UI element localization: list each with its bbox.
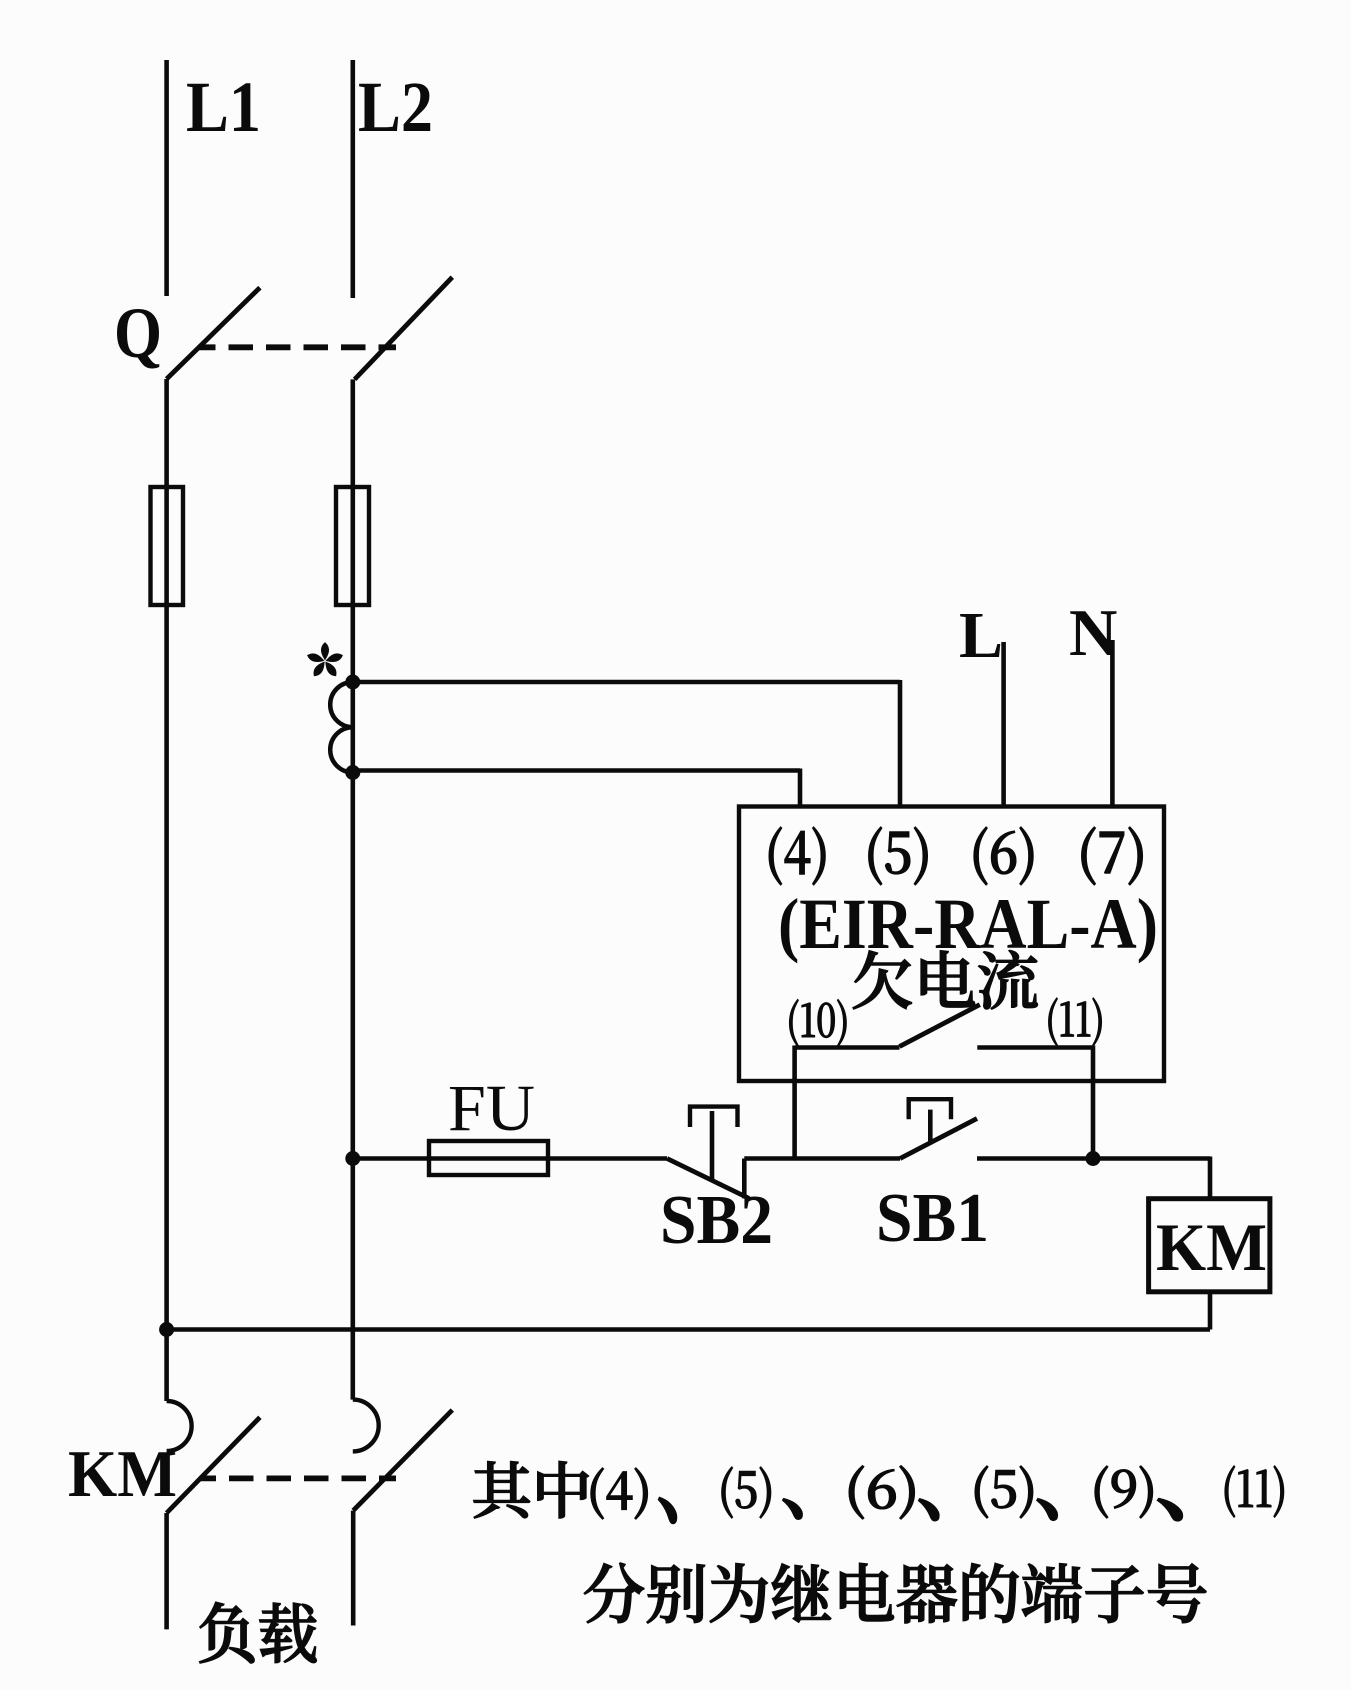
note (5) second [975, 1466, 1033, 1518]
relay pin 5 text [869, 827, 928, 885]
contactor coil KM box [1149, 1199, 1270, 1292]
note (5) [722, 1467, 771, 1518]
wire L1 incoming line [164, 60, 169, 296]
svg-text:L: L [959, 599, 1003, 672]
wire L2 incoming line [350, 60, 355, 298]
wire L1 below switch [164, 379, 169, 1401]
svg-text:FU: FU [448, 1072, 535, 1145]
svg-text:L2: L2 [358, 67, 433, 147]
note (9) [1095, 1466, 1153, 1518]
relay pin 11 text [1049, 998, 1102, 1046]
pushbutton SB1 cap [909, 1099, 951, 1119]
wire terminal 10 down [792, 1046, 797, 1161]
wire CT top to terminal 5 [353, 680, 900, 685]
note line2 分别为继电器的端子号 [584, 1563, 1206, 1623]
wire KM coil to bottom rail [1208, 1292, 1213, 1330]
wire CT bottom to terminal 4 [353, 768, 800, 773]
wire L1 to load [164, 1513, 169, 1629]
pushbutton SB2 cap [690, 1107, 738, 1127]
wire L2 to load [351, 1511, 356, 1626]
wire control rail left [353, 1156, 667, 1161]
relay name 欠电流 [853, 950, 1037, 1009]
contactor KM blade pole 1 [167, 1417, 260, 1513]
switch Q blade pole 1 [167, 288, 260, 379]
wire SB1 to KM coil [977, 1156, 1210, 1161]
note line1 其中 [474, 1461, 589, 1518]
junction CT top [345, 675, 360, 690]
fuse FU2 (L2) [336, 487, 369, 605]
contactor KM contact arc pole 2 [353, 1400, 379, 1452]
relay pin 4 text [769, 827, 825, 885]
wire N to terminal 7 [1110, 640, 1115, 808]
wire down to KM coil [1208, 1157, 1213, 1199]
relay contact fixed side (10) [795, 1045, 900, 1050]
note (11) [1225, 1466, 1284, 1517]
wire L2 below switch [350, 379, 355, 1399]
switch Q blade pole 2 [355, 277, 453, 379]
junction bottom rail on L1 [159, 1322, 174, 1337]
svg-text:L1: L1 [186, 67, 261, 147]
CT winding arcs [330, 682, 353, 772]
contactor KM contact arc pole 1 [167, 1401, 192, 1451]
note comma 4 [1037, 1499, 1057, 1520]
relay pin 10 text [789, 999, 846, 1046]
pushbutton SB1 blade [900, 1119, 977, 1159]
relay U1 box (EIR-RAL-A) [739, 807, 1164, 1082]
pushbutton SB2 plunger [710, 1111, 715, 1181]
svg-text:Q: Q [114, 293, 162, 373]
svg-text:(EIR-RAL-A): (EIR-RAL-A) [778, 884, 1158, 964]
fuse FU1 (L1) [151, 487, 184, 605]
note comma 2 [783, 1499, 802, 1519]
relay contact blade [900, 1005, 980, 1047]
junction CT bottom [345, 765, 360, 780]
pushbutton SB1 plunger [928, 1110, 933, 1141]
pushbutton SB2 blade [667, 1159, 749, 1199]
relay pin 7 text [1082, 827, 1143, 885]
switch Q linkage dashed line [199, 344, 396, 350]
relay contact fixed side (11) [977, 1045, 1093, 1050]
note (4) [591, 1468, 648, 1519]
relay pin 6 text [974, 827, 1033, 885]
fuse FU control [429, 1141, 548, 1175]
note comma 5 [1158, 1499, 1182, 1521]
note comma 1 [659, 1498, 677, 1523]
svg-text:KM: KM [68, 1437, 177, 1511]
wire L to terminal 6 [1001, 642, 1006, 808]
wire terminal 11 down [1091, 1046, 1096, 1161]
contactor KM blade pole 2 [353, 1410, 452, 1511]
svg-text:SB1: SB1 [876, 1180, 989, 1257]
contactor KM linkage dashed line [200, 1476, 397, 1482]
junction control tap on L2 [345, 1151, 360, 1166]
note (6) [849, 1466, 914, 1519]
svg-text:KM: KM [1156, 1209, 1267, 1285]
wire bottom return rail [167, 1327, 1210, 1332]
CT polarity asterisk [322, 644, 328, 659]
load label 负载 [200, 1602, 317, 1663]
svg-text:SB2: SB2 [660, 1182, 773, 1259]
wire SB2 to SB1 [744, 1156, 900, 1161]
junction wire 11 and coil branch [1086, 1151, 1101, 1166]
note comma 3 [919, 1499, 939, 1520]
pushbutton SB2 fixed contact [742, 1159, 747, 1199]
